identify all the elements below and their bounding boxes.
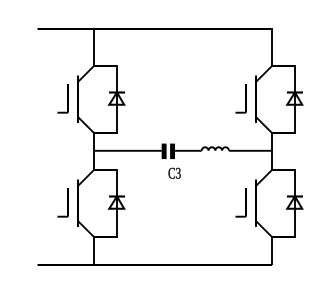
diode D2 (anti-parallel, top-right): [272, 66, 303, 133]
transistor Q2 (IGBT top-right): [236, 66, 273, 133]
wire right branch lower segment: [271, 237, 273, 265]
wire middle link left (node A to C3): [94, 150, 162, 152]
wire inductor to node B: [229, 150, 272, 152]
capacitor C3: [162, 144, 175, 160]
wire right branch middle segment: [271, 133, 273, 170]
wire left branch lower segment: [93, 237, 95, 265]
diode D4 (anti-parallel, bottom-right): [272, 170, 303, 237]
transistor Q4 (IGBT bottom-right): [236, 170, 273, 237]
wire left branch middle segment: [93, 133, 95, 170]
transistor Q3 (IGBT bottom-left): [58, 170, 95, 237]
wire bottom DC rail: [38, 264, 273, 266]
transistor Q1 (IGBT top-left): [58, 66, 95, 133]
label C3: [168, 168, 180, 179]
wire top DC rail: [38, 28, 273, 30]
diode D3 (anti-parallel, bottom-left): [94, 170, 125, 237]
wire left branch upper segment: [93, 28, 95, 66]
wire C3 to inductor: [175, 150, 202, 152]
inductor L1: [202, 147, 229, 151]
wire right branch upper segment: [271, 28, 273, 66]
diode D1 (anti-parallel, top-left): [94, 66, 125, 133]
